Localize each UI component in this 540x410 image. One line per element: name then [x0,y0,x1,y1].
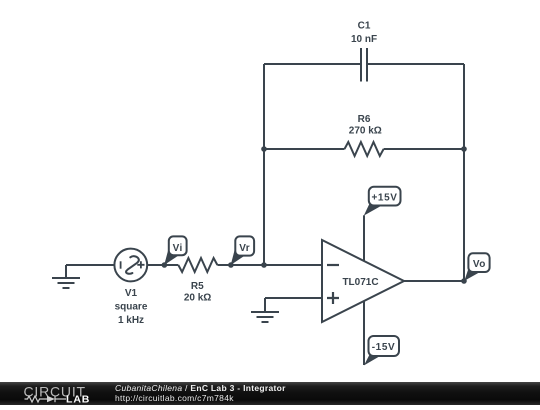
wire op-amp non-inverting input [265,297,322,299]
op-amp V+ supply pin wire [363,215,365,261]
junction dot left vertical / R6 [261,146,267,152]
junction dot main wire / left feedback [261,262,267,268]
ground GND1 (left of V1) [52,265,80,288]
footer url line [115,393,234,403]
svg-text:20 kΩ: 20 kΩ [184,293,211,304]
flag Vi [164,236,186,265]
flag Vr [231,236,254,265]
wire V1 to R5 [147,264,178,266]
node dot Vi [162,262,168,268]
svg-text:TL071C: TL071C [342,277,378,288]
svg-text:1 kHz: 1 kHz [118,315,144,326]
svg-text:V1: V1 [125,288,138,299]
wire R5 to op-amp inverting input [217,264,322,266]
footer title line [115,383,286,393]
wire C1 to right vertical [367,63,464,65]
wire ground to V1 [66,264,114,266]
label R5 value [184,281,211,304]
svg-text:LAB: LAB [66,394,90,406]
svg-text:+15V: +15V [371,193,397,204]
svg-text:square: square [115,302,148,313]
svg-text:Vo: Vo [473,259,486,270]
footer bar [0,382,540,405]
op-amp minus input symbol [327,264,339,266]
wire left feedback vertical [263,64,265,265]
wire left node to R6 [264,148,345,150]
label C1 value [351,21,377,45]
svg-text:Vi: Vi [173,243,183,254]
flag +15V [364,187,401,216]
svg-text:270 kΩ: 270 kΩ [349,126,382,137]
op-amp plus input symbol [327,292,339,304]
label R6 value [349,114,382,137]
flag Vo [464,253,489,280]
ground GND2 (non-inverting input) [251,298,279,322]
resistor R6 [345,142,384,156]
junction dot right vertical / R6 [461,146,467,152]
flag -15V [364,336,399,365]
svg-text:R6: R6 [358,114,371,125]
wire top to C1 [264,63,361,65]
svg-text:R5: R5 [191,281,204,292]
voltage source V1 [114,249,147,282]
CircuitLab logo [0,382,100,405]
svg-text:C1: C1 [358,21,371,32]
wire right feedback vertical [463,64,465,281]
label V1 value [115,288,148,326]
node dot Vr [228,262,234,268]
op-amp V- supply pin wire [363,301,365,365]
capacitor C1 [361,48,367,82]
op-amp U1 triangle [322,240,404,322]
svg-text:-15V: -15V [372,342,396,353]
resistor R5 [178,258,217,272]
wire op-amp output [404,280,464,282]
svg-text:10 nF: 10 nF [351,34,377,45]
wire R6 to right vertical [384,148,464,150]
svg-text:Vr: Vr [239,243,250,254]
junction dot output node [461,278,467,284]
